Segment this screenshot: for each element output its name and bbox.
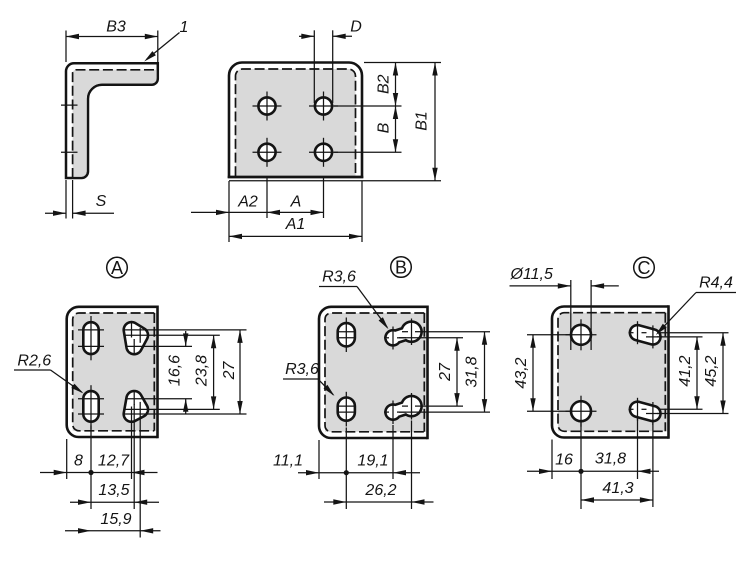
- dimension 23,8: dimension line: [213, 335, 215, 409]
- variant B: double-lobe upper crosshairs: [392, 327, 394, 350]
- variant B: plate gray core: [325, 313, 426, 432]
- front view: hole bottom-left: [258, 144, 275, 161]
- svg-text:A2: A2: [237, 194, 258, 211]
- dimension B2: dimension line: [395, 63, 397, 107]
- variant C: dashed inner outline: [558, 313, 665, 432]
- side view: dashed bend centerline: [73, 70, 155, 178]
- svg-text:23,8: 23,8: [194, 355, 211, 387]
- variant B: plate outline: [319, 307, 428, 438]
- front view: fold line below plate: [229, 180, 441, 182]
- label R3,6 lower: leader with arrow: [283, 378, 318, 380]
- svg-text:19,1: 19,1: [357, 453, 388, 470]
- variant C: slanted slot lower-right R4,4: [630, 402, 661, 421]
- dimension B3: dimension line with arrows: [66, 36, 158, 38]
- svg-text:D: D: [350, 19, 362, 36]
- dimension D: dimension line with outside arrows: [299, 35, 314, 37]
- dimension 8 and 12,7: dimension line: [40, 472, 67, 474]
- variant B: dashed fold inset right: [423, 313, 425, 432]
- variant C: label circle: [634, 257, 655, 278]
- variant A: slot upper crosshairs: [90, 316, 92, 360]
- svg-text:31,8: 31,8: [595, 451, 626, 468]
- svg-text:A1: A1: [285, 216, 306, 233]
- variant C: left extension lines: [527, 334, 570, 336]
- svg-text:A: A: [290, 194, 302, 211]
- variant A: plate gray core: [73, 313, 157, 431]
- dimension S: extension lines: [65, 180, 67, 219]
- variant C: round hole lower-left Ø11,5: [571, 401, 591, 421]
- dimension B1: dimension line: [434, 63, 436, 181]
- dimension Ø11,5: dimension line with outside arrows: [510, 285, 571, 287]
- variant A: label circle: [107, 257, 128, 278]
- variant A: row extension lines to right dims: [123, 329, 247, 331]
- label R2,6: leader with arrow: [14, 369, 51, 371]
- variant B: double-lobe lower crosshairs: [392, 401, 394, 425]
- svg-text:B1: B1: [414, 111, 431, 131]
- dimension 45,2: dimension line: [722, 333, 724, 414]
- front view: hole top-left: [258, 97, 275, 114]
- dimension Ø11,5: extension lines: [570, 280, 572, 350]
- front view: hole top-right: [315, 97, 332, 114]
- svg-text:B: B: [395, 257, 407, 277]
- dimension B3: extension lines: [65, 31, 67, 63]
- variant A: plate outline: [67, 307, 158, 437]
- variant C: slanted slot upper-right R4,4: [630, 325, 661, 344]
- front view: right extension lines: [364, 62, 441, 64]
- variant C: slot upper-right crosshairs: [637, 321, 639, 344]
- svg-text:27: 27: [437, 362, 454, 382]
- variant C: node dot at 16/31,8 junction: [578, 469, 583, 474]
- variant C: bottom extension lines: [551, 440, 553, 480]
- variant A: dashed fold inset right: [153, 313, 155, 431]
- dimension 27 (variant A): dimension line: [239, 330, 241, 414]
- svg-text:43,2: 43,2: [513, 357, 530, 388]
- svg-text:27: 27: [221, 361, 238, 381]
- svg-text:A: A: [111, 258, 123, 278]
- variant B: row extension lines to right dims: [420, 331, 490, 333]
- svg-text:16: 16: [555, 451, 573, 468]
- side view: outer profile of angle bracket: [66, 63, 158, 178]
- front view: bottom extension lines: [228, 181, 230, 242]
- variant B: double-lobe hole upper-right: [385, 322, 421, 346]
- svg-text:41,3: 41,3: [602, 480, 633, 497]
- variant C: slot lower-right crosshairs: [637, 398, 639, 421]
- dimension 41,2: dimension line: [696, 337, 698, 409]
- front view: dashed inner outline: [236, 69, 356, 176]
- front view: plate gray core: [236, 69, 356, 176]
- front view: bottom fold edge: [228, 176, 364, 179]
- dimension B: dimension line: [395, 106, 397, 152]
- dimension D: extension lines: [313, 30, 315, 103]
- side view: hole position tick upper: [61, 104, 78, 106]
- svg-text:16,6: 16,6: [167, 355, 184, 386]
- svg-text:B: B: [376, 122, 393, 133]
- variant A: tri-lobe upper crosshair ticks: [131, 323, 133, 338]
- variant C: plate gray core: [558, 313, 667, 432]
- variant B: slot upper-left crosshairs: [345, 318, 347, 353]
- variant C: dashed fold inset right: [664, 313, 666, 432]
- variant C: round hole upper-left Ø11,5: [571, 325, 591, 345]
- variant B: label circle: [391, 257, 412, 278]
- variant A: node dot at 8/12,7 junction: [88, 470, 93, 475]
- variant A: bottom extension lines: [66, 439, 68, 479]
- svg-text:26,2: 26,2: [364, 482, 396, 499]
- dimension S: dimension line with outside arrows: [45, 212, 66, 214]
- variant A: fold edge right: [156, 306, 159, 439]
- dimension 26,2: dimension line: [324, 501, 346, 503]
- variant B: dashed inner outline: [325, 313, 424, 432]
- svg-text:C: C: [638, 258, 651, 278]
- variant B: slot lower-left crosshairs: [345, 392, 347, 427]
- svg-text:S: S: [96, 193, 107, 210]
- svg-text:Ø11,5: Ø11,5: [509, 266, 553, 283]
- dimension A1: dimension line: [229, 235, 362, 237]
- svg-text:11,1: 11,1: [273, 453, 303, 470]
- front view: hole bottom-right: [315, 144, 332, 161]
- dimension 11,1 and 19,1: dimension line: [298, 472, 319, 474]
- svg-text:41,2: 41,2: [677, 355, 694, 386]
- dimension 27 (variant B): dimension line: [456, 338, 458, 406]
- variant A: slotted hole lower-left R2,6: [83, 391, 98, 422]
- variant C: plate outline: [552, 307, 669, 438]
- variant A: tri-lobe lower crosshair ticks: [131, 407, 133, 422]
- label R3,6 upper: leader with arrow: [319, 286, 357, 288]
- variant A: slot lower crosshairs: [90, 385, 92, 429]
- svg-text:B3: B3: [106, 19, 126, 36]
- svg-text:R4,4: R4,4: [699, 275, 733, 292]
- svg-text:R2,6: R2,6: [17, 352, 51, 369]
- front view: plate outline: [229, 63, 362, 178]
- svg-text:8: 8: [74, 453, 83, 470]
- dimension 13,5: dimension line: [70, 501, 91, 503]
- dimension 16,6: dimension line with outside arrows: [185, 331, 187, 346]
- dimension 41,3: dimension line: [581, 499, 653, 501]
- svg-text:B2: B2: [376, 74, 393, 94]
- variant B: bottom extension lines: [318, 440, 320, 479]
- variant B: node dot at 11,1/19,1 junction: [344, 470, 349, 475]
- variant A: tri-lobe hole upper-right: [124, 322, 148, 354]
- svg-text:31,8: 31,8: [463, 356, 480, 387]
- label R4,4: leader with arrow: [696, 292, 736, 294]
- callout 1: leader with arrow to top edge: [147, 33, 180, 60]
- variant B: slotted hole upper-left R3,6: [338, 323, 355, 346]
- svg-text:13,5: 13,5: [98, 482, 129, 499]
- variant B: double-lobe hole lower-right: [385, 396, 421, 420]
- dimension A: arrows: [267, 210, 280, 215]
- svg-text:12,7: 12,7: [98, 453, 130, 470]
- svg-text:15,9: 15,9: [100, 511, 131, 528]
- side view: gray core of bracket section: [73, 70, 157, 177]
- svg-text:1: 1: [180, 19, 189, 36]
- dimension 31,8 (variant B): dimension line: [484, 332, 486, 412]
- dimension 43,2: dimension line: [532, 335, 534, 411]
- dimension 16 and 31,8: dimension line: [527, 470, 552, 472]
- variant A: slotted hole upper-left R2,6: [83, 322, 98, 354]
- svg-text:R3,6: R3,6: [322, 269, 356, 286]
- variant A: dashed inner outline: [73, 313, 155, 431]
- svg-text:R3,6: R3,6: [285, 361, 319, 378]
- variant A: tri-lobe hole lower-right: [124, 391, 148, 422]
- variant C: row extension lines to right dims: [659, 332, 729, 334]
- svg-text:45,2: 45,2: [703, 355, 720, 386]
- variant B: fold edge right: [426, 306, 429, 440]
- dimension A2: dimension line with outside arrow: [191, 211, 324, 213]
- dimension 15,9: dimension line: [65, 530, 91, 532]
- variant C: fold edge right: [667, 305, 670, 439]
- side view: hole position tick lower: [61, 151, 78, 153]
- variant B: slotted hole lower-left R3,6: [338, 398, 355, 421]
